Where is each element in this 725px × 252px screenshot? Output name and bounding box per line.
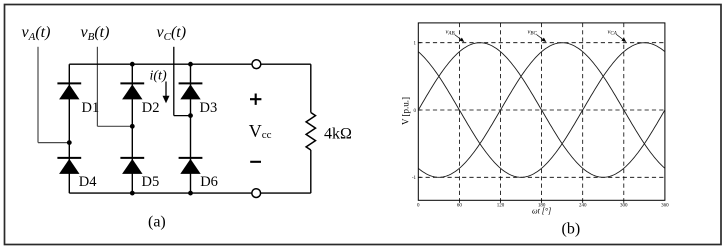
svg-text:(a): (a) xyxy=(148,214,166,231)
terminal bottom circle xyxy=(252,189,261,198)
wire top bus xyxy=(69,63,310,65)
svg-text:0: 0 xyxy=(417,204,420,209)
chart gridline horizontal -1 xyxy=(418,176,665,178)
svg-text:-1: -1 xyxy=(412,176,417,181)
diode D5 xyxy=(120,158,144,174)
svg-text:D6: D6 xyxy=(200,174,218,190)
curve label vAB xyxy=(446,29,465,43)
svg-text:4kΩ: 4kΩ xyxy=(324,125,352,142)
svg-text:vCA: vCA xyxy=(608,29,618,37)
svg-text:120: 120 xyxy=(497,204,505,209)
diode D2 xyxy=(120,83,144,99)
svg-text:i(t): i(t) xyxy=(150,69,167,84)
node phase B junction xyxy=(130,124,135,129)
curve vAB xyxy=(418,43,665,178)
svg-text:240: 240 xyxy=(579,204,587,209)
diode D4 xyxy=(57,158,81,174)
diode D3 xyxy=(179,83,203,99)
chart gridline horizontal +1 xyxy=(418,42,665,44)
svg-text:V [p.u.]: V [p.u.] xyxy=(401,97,411,125)
wire phase A vertical xyxy=(37,47,39,143)
node bottom bus leg3 xyxy=(188,191,193,196)
terminal top circle xyxy=(252,60,261,69)
resistor 4k zigzag xyxy=(306,113,315,151)
node top bus leg3 xyxy=(188,62,193,67)
chart gridline vertical 120 xyxy=(500,23,502,200)
diode D1 xyxy=(57,83,81,99)
svg-text:(b): (b) xyxy=(562,221,581,238)
label minus sign xyxy=(250,161,261,163)
svg-text:ωt [°]: ωt [°] xyxy=(532,207,551,216)
svg-text:1: 1 xyxy=(414,42,417,47)
wire phase C vertical xyxy=(173,47,175,116)
wire phase C horizontal to bridge xyxy=(174,115,191,117)
wire bridge leg 3 xyxy=(190,64,192,193)
svg-text:vBC: vBC xyxy=(528,29,538,37)
curve label vCA xyxy=(608,29,627,43)
current arrow i(t) xyxy=(163,82,170,104)
svg-text:60: 60 xyxy=(457,204,463,209)
diode D6 xyxy=(179,158,203,174)
curve vBC xyxy=(418,43,665,178)
node top bus leg2 xyxy=(130,62,135,67)
label plus sign xyxy=(250,94,261,105)
wire phase B vertical xyxy=(96,47,98,127)
svg-text:0: 0 xyxy=(414,109,417,114)
svg-text:vC(t): vC(t) xyxy=(157,24,187,43)
chart y ticks xyxy=(418,43,421,178)
chart gridline vertical 240 xyxy=(582,23,584,200)
svg-text:D5: D5 xyxy=(142,174,160,190)
chart gridline vertical 300 xyxy=(623,23,625,200)
chart plot box xyxy=(418,23,665,200)
svg-text:D3: D3 xyxy=(200,100,218,116)
svg-text:vAB: vAB xyxy=(446,29,455,37)
chart gridline vertical 180 xyxy=(541,23,543,200)
svg-text:Vcc: Vcc xyxy=(249,121,272,141)
node bottom bus leg2 xyxy=(130,191,135,196)
svg-text:D1: D1 xyxy=(82,100,100,116)
wire bottom bus xyxy=(69,192,310,194)
chart gridline vertical 60 xyxy=(458,23,460,200)
node phase A junction xyxy=(67,140,72,145)
curve label vBC xyxy=(528,29,547,43)
svg-text:vA(t): vA(t) xyxy=(22,24,51,43)
svg-text:D4: D4 xyxy=(79,174,97,190)
svg-text:360: 360 xyxy=(661,204,669,209)
svg-text:vB(t): vB(t) xyxy=(81,24,110,43)
svg-text:D2: D2 xyxy=(142,100,160,116)
svg-text:300: 300 xyxy=(620,204,628,209)
wire right load branch xyxy=(310,64,312,193)
chart gridline horizontal 0 xyxy=(418,109,665,111)
chart x ticks xyxy=(459,200,623,203)
node phase C junction xyxy=(188,113,193,118)
wire phase A horizontal to bridge xyxy=(38,142,69,144)
wire bridge leg 2 xyxy=(131,64,133,193)
wire bridge leg 1 xyxy=(68,64,70,193)
curve vCA xyxy=(418,43,665,178)
wire phase B horizontal to bridge xyxy=(97,125,132,127)
